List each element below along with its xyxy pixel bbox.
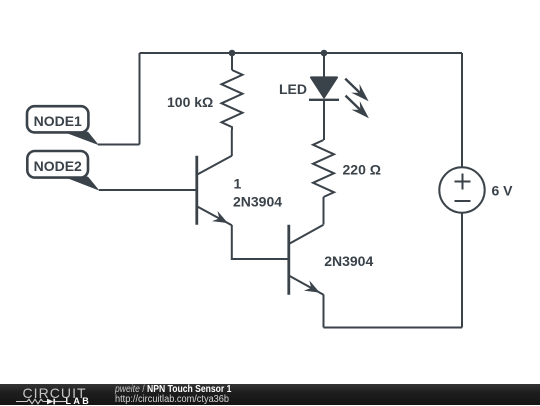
wire left vertical to NODE1 [139, 53, 141, 145]
svg-text:220 Ω: 220 Ω [343, 162, 381, 178]
voltage source V1 6V [439, 167, 484, 212]
wire NODE1 to left vertical [98, 144, 140, 146]
wire NODE2 to Q1 base [99, 189, 197, 191]
node NODE1 flag [27, 106, 99, 145]
footer author / title line [115, 385, 231, 395]
svg-text:2N3904: 2N3904 [233, 193, 282, 209]
LED D1 [309, 77, 339, 99]
footer bar [0, 384, 540, 405]
resistor R2 220 Ohm [313, 140, 334, 197]
wire Q1 emitter to Q2 base [232, 225, 289, 259]
wire LED cathode to 220 ohm [323, 100, 325, 140]
wire bottom rail [324, 327, 463, 329]
junction node at 100k top [229, 50, 236, 57]
CircuitLab logo resistor-diode glyph [16, 398, 66, 405]
CircuitLab logo wordmark LAB [66, 397, 92, 405]
LED light arrow 1 [341, 74, 373, 105]
svg-text:NODE1: NODE1 [34, 113, 82, 129]
svg-text:NODE2: NODE2 [34, 158, 82, 174]
svg-text:2N3904: 2N3904 [324, 253, 373, 269]
wire 220 ohm bottom lead [323, 197, 325, 225]
footer url line [115, 395, 229, 405]
CircuitLab logo wordmark CIRCUIT [23, 387, 87, 400]
wire top rail [140, 52, 463, 54]
transistor Q1 2N3904 [197, 156, 232, 229]
wire right vertical top (source to top rail) [461, 53, 463, 167]
wire 100k bottom lead to Q1 collector [231, 130, 233, 156]
wire Q2 emitter to bottom rail [323, 295, 325, 328]
svg-text:1: 1 [234, 175, 242, 191]
resistor R1 100 kOhm [222, 70, 243, 130]
node NODE2 flag [27, 151, 99, 191]
junction node at LED top [321, 50, 328, 57]
LED light arrow 2 [341, 91, 373, 122]
transistor Q2 2N3904 [289, 225, 324, 298]
wire right vertical bottom (source to bottom rail) [461, 213, 463, 328]
wire LED anode lead [323, 53, 325, 77]
svg-text:LED: LED [279, 81, 307, 97]
svg-text:6 V: 6 V [492, 183, 514, 199]
svg-text:100 kΩ: 100 kΩ [167, 94, 213, 110]
wire 100k top lead [231, 53, 233, 70]
